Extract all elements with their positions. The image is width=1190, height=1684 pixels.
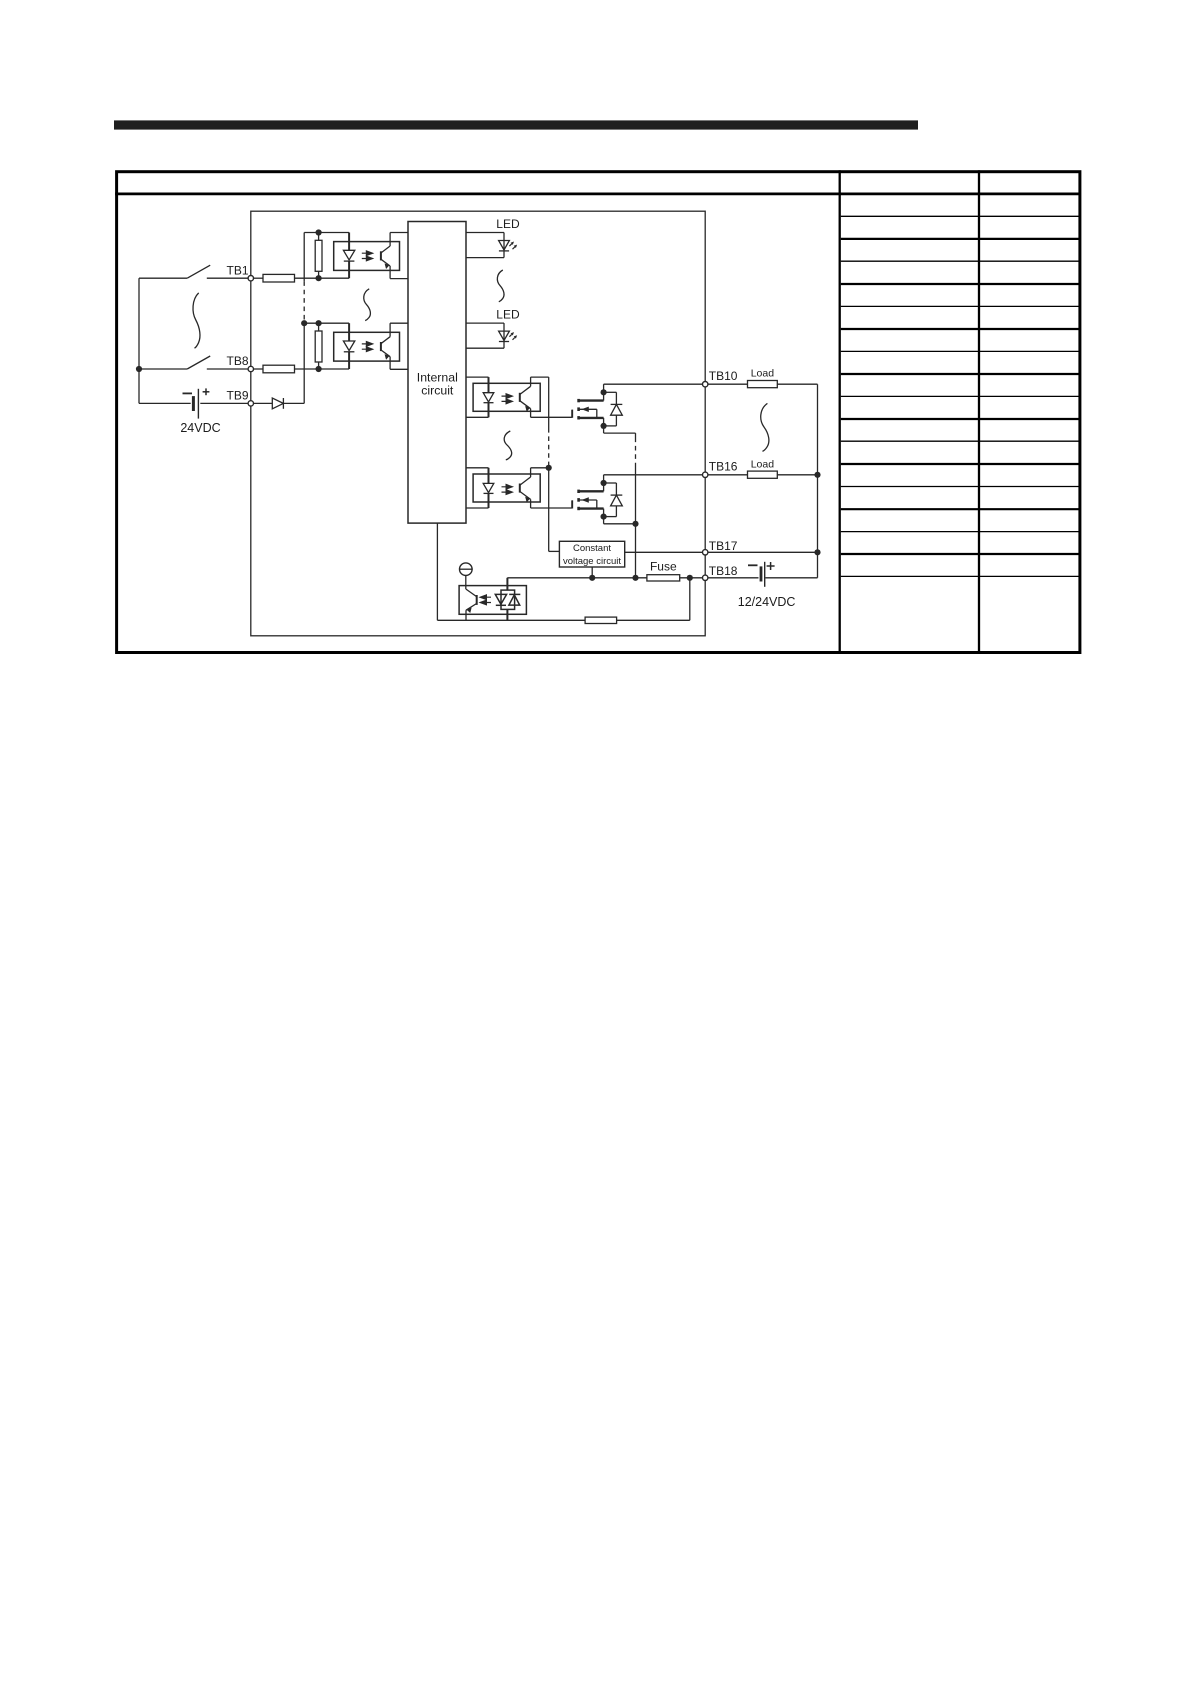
internal circuit return wire — [436, 523, 438, 620]
PC16 phototransistor — [519, 484, 521, 493]
output photocoupler PC16 anode tab — [466, 467, 489, 469]
load resistor (TB10) — [748, 381, 778, 388]
PC16 collector tab — [531, 467, 549, 469]
MOSFET Q16 body diode — [604, 482, 617, 484]
table column divider 2 — [978, 170, 980, 652]
terminal TB17 — [703, 550, 708, 555]
LED 2 emission arrows — [509, 334, 511, 336]
LED 1 emission arrows — [509, 244, 511, 246]
fuse-blow photocoupler phototransistor — [476, 595, 478, 605]
LED pair frame — [501, 590, 515, 609]
battery polarity marks — [183, 392, 193, 394]
PC10 phototransistor — [519, 393, 521, 402]
parallel resistor channel 8 — [318, 323, 320, 331]
svg-text:TB16: TB16 — [709, 460, 738, 474]
MOSFET Q16 source node — [603, 509, 605, 524]
PC8 collector tab — [390, 322, 408, 324]
svg-text:voltage circuit: voltage circuit — [563, 556, 621, 567]
MOSFET Q16 source lead — [579, 507, 604, 509]
MOSFET Q10 drain lead — [579, 399, 604, 401]
battery 24VDC plates — [192, 396, 195, 411]
LED pair left diode (down) — [495, 594, 506, 604]
PC10 collector tab — [531, 376, 549, 378]
external load supply vertical — [817, 384, 819, 578]
MOSFET Q16 drain lead — [579, 490, 604, 492]
MOSFET Q10 source lead — [579, 417, 604, 419]
PC16 cathode tab — [466, 507, 489, 509]
LED 1 symbol — [499, 241, 510, 250]
table row lines (thin) — [841, 216, 1079, 576]
MOSFET Q16 gate — [571, 500, 573, 508]
fuse-blow photocoupler package — [459, 586, 526, 615]
photocoupler PC8 LED — [348, 323, 350, 341]
photocoupler PC1 LED — [348, 233, 350, 251]
PC10 cathode tab — [466, 416, 489, 418]
current limit resistor — [585, 617, 617, 623]
break squiggle between LEDs — [497, 270, 504, 302]
svg-text:TB9: TB9 — [226, 389, 248, 403]
svg-text:Constant: Constant — [573, 543, 611, 554]
LED pair right diode (up) — [509, 595, 520, 605]
channel 1 top rail — [304, 232, 349, 234]
terminal TB16 — [703, 472, 708, 477]
blown fuse indicator lamp — [460, 563, 473, 576]
CVC ground stub — [591, 567, 593, 578]
fuse F1 — [647, 575, 680, 581]
output photocoupler PC10 anode tab — [466, 376, 489, 378]
LED 2 symbol — [499, 331, 510, 340]
input resistor R8 (TB8 series) — [254, 368, 264, 370]
output photocoupler PC16 package — [473, 474, 540, 502]
MOSFET Q10 drain node — [603, 384, 605, 400]
svg-text:circuit: circuit — [421, 384, 454, 398]
LED indicator loop 1 — [466, 232, 504, 234]
internal circuit block — [408, 222, 466, 524]
table row lines (thick group separators) — [841, 239, 1079, 554]
TB10 output wire — [604, 383, 703, 385]
svg-text:Fuse: Fuse — [650, 560, 677, 574]
PC10 LED — [488, 377, 490, 393]
LED indicator loop 2 — [466, 322, 504, 324]
break squiggle between input channels — [364, 289, 371, 321]
PC10 light arrows — [502, 394, 513, 399]
MOSFET Q10 source node — [603, 418, 605, 433]
PC16 LED — [488, 468, 490, 484]
input common vertical (to TB9 diode) — [303, 233, 305, 282]
break squiggle between output channels — [504, 431, 511, 460]
PC1 collector tab to internal circuit — [390, 232, 408, 234]
fuse-blow photocoupler light arrows (pointing left) — [480, 595, 491, 600]
battery 12/24VDC plates — [760, 566, 763, 581]
fuse-blow photocoupler LED pair feed — [506, 578, 508, 590]
svg-text:TB17: TB17 — [709, 539, 738, 553]
terminal TB9 — [248, 401, 253, 406]
PC1 emitter tab to internal circuit — [390, 278, 408, 280]
top section divider bar — [114, 120, 918, 129]
battery 12/24VDC polarity marks — [748, 564, 758, 566]
svg-text:Load: Load — [751, 458, 775, 470]
svg-text:TB18: TB18 — [709, 564, 738, 578]
battery 12/24VDC wires — [708, 577, 759, 579]
junction dots channel 1 rails — [316, 229, 322, 235]
svg-text:LED: LED — [496, 217, 520, 231]
load resistor (TB16) — [748, 471, 778, 478]
output photocoupler PC10 package — [473, 383, 540, 411]
terminal TB18 — [703, 575, 708, 580]
wire battery row — [139, 402, 191, 404]
PC10 emitter wire to gate — [531, 416, 572, 418]
PC16 emitter wire to gate — [531, 507, 572, 509]
table column divider 1 — [839, 170, 841, 652]
PC16 light arrows — [502, 485, 513, 490]
photocoupler PC8 light arrows — [362, 342, 373, 347]
external common wire (left vertical) — [138, 278, 140, 403]
break squiggle between switches — [193, 293, 200, 348]
svg-text:12/24VDC: 12/24VDC — [738, 595, 796, 609]
terminal TB8 — [248, 366, 253, 371]
svg-text:24VDC: 24VDC — [180, 421, 220, 435]
switch S1 (input TB1) — [139, 277, 187, 279]
svg-text:TB1: TB1 — [226, 263, 248, 277]
junction at S2 branch — [136, 366, 142, 372]
MOSFET Q10 body diode — [604, 391, 617, 393]
photocoupler PC8 phototransistor — [380, 342, 382, 351]
MOSFET Q10 channel bars — [577, 399, 580, 402]
table header separator — [115, 193, 1080, 196]
LED pair bottom feed — [506, 609, 508, 620]
channel 8 top rail — [304, 322, 349, 324]
terminal TB1 — [248, 276, 253, 281]
MOSFET Q16 body lead with arrow — [579, 499, 597, 501]
MOSFET Q10 body lead with arrow — [579, 408, 597, 410]
PC8 emitter tab — [390, 368, 408, 370]
MOSFET Q10 gate — [571, 410, 573, 418]
photocoupler PC8 package — [334, 332, 400, 361]
TB18 supply wire — [507, 577, 702, 579]
source common vertical — [635, 433, 637, 437]
module boundary box (inner schematic frame) — [251, 211, 705, 636]
svg-text:LED: LED — [496, 308, 520, 322]
switch S2 (input TB8) — [139, 368, 187, 370]
diode D9 (TB9 reverse protection) — [254, 402, 273, 404]
constant voltage circuit block — [559, 541, 624, 567]
TB16 output wire — [604, 474, 703, 476]
svg-text:Internal: Internal — [417, 370, 458, 384]
photocoupler PC1 light arrows — [362, 251, 373, 256]
MOSFET Q16 channel bars — [577, 490, 580, 493]
input resistor R1 (TB1 series) — [254, 277, 264, 279]
table outer border — [117, 172, 1080, 653]
break squiggle in load branch — [761, 403, 769, 451]
terminal TB10 — [703, 382, 708, 387]
junction dots channel 8 — [301, 320, 307, 326]
photocoupler PC1 package — [334, 242, 400, 271]
svg-text:TB10: TB10 — [709, 369, 738, 383]
MOSFET Q16 drain node — [603, 475, 605, 492]
svg-text:Load: Load — [751, 368, 775, 380]
CVC output wire to TB17 — [625, 551, 703, 553]
svg-text:TB8: TB8 — [226, 354, 248, 368]
photocoupler PC1 phototransistor — [380, 251, 382, 260]
parallel resistor channel 1 — [318, 233, 320, 241]
collector common vertical — [548, 377, 550, 428]
